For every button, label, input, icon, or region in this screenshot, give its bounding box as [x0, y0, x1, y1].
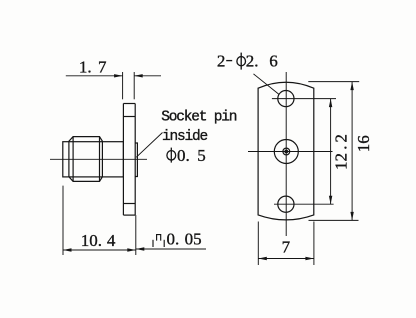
- svg-text:0.: 0.: [167, 230, 180, 249]
- arrowhead 7 right: [305, 257, 314, 260]
- nut hex flat line left: [72, 137, 74, 182]
- arrowhead 1.7 left (pointing right at left ext line): [114, 74, 123, 77]
- dim 10.4 extension line left: [62, 186, 64, 255]
- front view vertical centerline: [285, 72, 287, 236]
- svg-text:Socket pin: Socket pin: [161, 109, 237, 125]
- socket boss on mounting face: [135, 143, 137, 177]
- bottom mounting hole: [278, 196, 294, 212]
- dim 16 line: [351, 82, 353, 221]
- svg-text:.: .: [332, 146, 351, 150]
- arrowhead 12.2 top: [329, 99, 332, 108]
- svg-text:2.: 2.: [246, 51, 259, 70]
- side view centerline: [50, 158, 147, 160]
- svg-text:5: 5: [197, 146, 206, 165]
- dim 12.2 line: [330, 99, 332, 205]
- flange side view right face: [134, 104, 136, 216]
- dim 1.7 line left segment: [66, 75, 123, 77]
- socket pin center dot: [284, 150, 288, 154]
- dim 10.4 line: [63, 249, 136, 251]
- top mounting hole: [278, 91, 294, 107]
- flange chamfer line top: [123, 116, 135, 118]
- arrowhead 16 bottom: [350, 212, 353, 221]
- top hole centerline: [272, 98, 336, 100]
- dim 16 extension line top: [308, 81, 359, 83]
- svg-text:10.: 10.: [81, 231, 102, 250]
- dim 10.4 / flange face extension line right: [135, 215, 137, 255]
- nut hex flat line right: [99, 137, 101, 182]
- coupling nut outline (hex side view): [69, 137, 103, 182]
- leader line socket pin note: [136, 133, 162, 158]
- svg-text:16: 16: [354, 135, 373, 152]
- dim 1.7 extension line left: [122, 72, 124, 99]
- arrowhead 7 left: [258, 257, 267, 260]
- arrowhead 12.2 bottom: [329, 196, 332, 205]
- arrowhead 16 top: [350, 82, 353, 91]
- leader line 0.05: [136, 248, 206, 250]
- svg-text:2: 2: [332, 134, 351, 143]
- flatness-protrusion symbol: [153, 235, 164, 247]
- socket pin ring: [283, 148, 290, 155]
- front view flange outline: [258, 82, 314, 220]
- dim 1.7 extension line right: [133, 72, 135, 99]
- arrowhead 1.7 right (pointing left at right ext line): [134, 74, 143, 77]
- svg-text:6: 6: [269, 51, 278, 70]
- barrel (connector body): [63, 142, 124, 177]
- svg-text:05: 05: [185, 230, 202, 249]
- dim 1.7 line right segment: [134, 75, 161, 77]
- center hole centerline: [248, 151, 333, 153]
- svg-text:12: 12: [332, 153, 351, 170]
- dim 16 extension line bottom: [309, 219, 359, 221]
- dim 7 line: [258, 258, 314, 260]
- svg-text:4: 4: [107, 231, 116, 250]
- flange chamfer line bottom: [123, 203, 135, 205]
- svg-text:7: 7: [282, 238, 291, 257]
- flange side view bottom edge: [123, 214, 135, 216]
- center hole: [274, 140, 298, 164]
- svg-text:7: 7: [98, 58, 107, 77]
- arrowhead 0.05 leader: [136, 247, 145, 250]
- dim 7 extension line right: [313, 222, 315, 266]
- arrowhead 10.4 left: [63, 248, 72, 251]
- leader line 2-phi2.6: [254, 74, 280, 95]
- svg-text:2: 2: [217, 51, 226, 70]
- bottom hole centerline: [274, 203, 334, 205]
- flange side view left face: [122, 104, 124, 216]
- svg-text:0.: 0.: [177, 146, 190, 165]
- arrowhead 10.4 right: [127, 248, 136, 251]
- svg-text:1.: 1.: [79, 58, 92, 77]
- flange side view top edge: [123, 103, 135, 105]
- dim 7 extension line left: [257, 222, 259, 266]
- svg-text:inside: inside: [162, 129, 208, 145]
